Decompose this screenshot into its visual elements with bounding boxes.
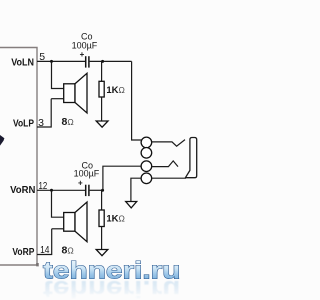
- wire node B to resistor R2: [101, 190, 103, 210]
- wire pin12 to capacitor C2: [37, 189, 85, 191]
- resistor R2 body: [99, 210, 104, 227]
- speaker LS2 body: [64, 213, 75, 232]
- jack ring switch contact (right channel): [152, 161, 178, 167]
- wire node A to resistor R1: [101, 61, 103, 81]
- wire speaker LS2 minus terminal: [52, 228, 64, 230]
- svg-text:tehneri.ru: tehneri.ru: [43, 258, 181, 285]
- wire sleeve circle to plug body: [152, 177, 186, 179]
- wire sleeve circle to ground: [131, 178, 141, 201]
- wire pin14 elbow up to speaker LS2: [37, 229, 52, 255]
- svg-text:1KΩ: 1KΩ: [106, 85, 125, 96]
- IC U1 outline (partial, left edge off-canvas): [0, 48, 37, 266]
- svg-text:VoRN: VoRN: [10, 184, 35, 196]
- wire pin5 to capacitor C1: [37, 60, 85, 62]
- jack tip switch contact (left channel): [152, 140, 185, 147]
- ground symbol under jack: [126, 202, 137, 208]
- cropped logo wedge at left edge: [0, 135, 4, 146]
- svg-text:+: +: [80, 50, 85, 59]
- speaker LS1 body: [64, 84, 75, 103]
- svg-text:100µF: 100µF: [74, 168, 100, 178]
- resistor R1 body: [99, 81, 104, 97]
- wire node A down-right to jack tip contact: [132, 61, 142, 140]
- svg-text:8Ω: 8Ω: [62, 116, 74, 128]
- capacitor Co (left channel) plates: [86, 56, 89, 67]
- wire speaker LS1 minus terminal: [51, 98, 64, 100]
- svg-text:1KΩ: 1KΩ: [106, 214, 125, 225]
- jack plug barrel outline: [185, 138, 196, 178]
- wire junction down to speaker LS1 plus terminal: [52, 61, 64, 88]
- node B junction dot: [101, 189, 104, 192]
- wire resistor R2 to ground: [101, 227, 103, 250]
- wire resistor R1 to ground: [101, 97, 103, 121]
- wire capacitor to node A: [90, 60, 132, 62]
- jack J1 sleeve contact circle: [141, 173, 152, 184]
- wire node B up-right to jack ring contact: [103, 166, 141, 190]
- svg-text:VoLN: VoLN: [11, 56, 34, 68]
- ground symbol under R2: [96, 250, 108, 256]
- wire junction down to speaker LS2 plus terminal: [52, 190, 64, 217]
- IC U1 corner emphasis: [36, 263, 39, 266]
- jack J1 tip contact circle: [141, 137, 152, 148]
- svg-text:VoLP: VoLP: [13, 118, 34, 130]
- node A junction dot: [101, 60, 104, 63]
- svg-text:+: +: [78, 178, 83, 187]
- node junction at pin5 wire: [50, 60, 53, 63]
- ground symbol under R1: [96, 121, 108, 127]
- speaker LS1 cone: [75, 73, 87, 113]
- node junction at pin12 wire: [50, 189, 53, 192]
- capacitor Co (right channel) plates: [86, 185, 89, 196]
- jack J1 ring contact circle: [141, 148, 152, 159]
- svg-text:VoRP: VoRP: [12, 246, 34, 258]
- svg-text:100µF: 100µF: [72, 40, 98, 50]
- wire capacitor C2 to node B: [90, 189, 104, 191]
- wire pin3 elbow up to speaker LS1: [37, 99, 51, 127]
- jack J1 second ring contact circle: [141, 161, 152, 172]
- svg-text:8Ω: 8Ω: [62, 244, 74, 256]
- speaker LS2 cone: [75, 202, 87, 242]
